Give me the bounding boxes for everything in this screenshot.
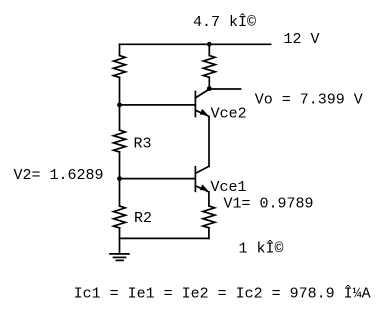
- transistor Q1 emitter lead: [195, 186, 209, 192]
- transistor Q2 collector lead: [195, 89, 209, 98]
- ground bar 3: [116, 259, 123, 261]
- wire bottom rail: [120, 237, 209, 239]
- node dot Q1 base / V2: [117, 176, 122, 181]
- transistor Q2 emitter lead: [195, 110, 209, 116]
- wire Q2 base lead: [120, 104, 196, 106]
- resistor R2: [114, 206, 126, 228]
- svg-text:V2= 1.6289: V2= 1.6289: [14, 167, 104, 184]
- wire Q1 emitter to 1k resistor: [208, 192, 210, 206]
- wire left branch R2 to ground node: [119, 228, 121, 239]
- transistor Q2 base bar: [194, 92, 196, 117]
- node dot Q2 base: [117, 103, 122, 108]
- resistor R3: [114, 130, 126, 152]
- svg-text:Vce2: Vce2: [211, 105, 247, 122]
- resistor 4.7k: [203, 55, 215, 77]
- svg-text:Ic1 = Ie1 = Ie2 = Ic2 = 978.9: Ic1 = Ie1 = Ie2 = Ic2 = 978.9 Î¼A: [74, 284, 371, 302]
- ground bar 1: [110, 253, 129, 255]
- wire left branch R3 to node V2: [119, 152, 121, 206]
- wire 1k resistor bottom lead: [208, 228, 210, 239]
- wire Vo output stub: [209, 88, 240, 90]
- wire left branch R1 to node V2a: [119, 77, 121, 130]
- svg-text:12 V: 12 V: [284, 31, 320, 48]
- transistor Q1 base bar: [194, 167, 196, 192]
- transistor Q1 collector lead: [195, 166, 209, 173]
- node dot top rail / 4.7k: [207, 42, 212, 47]
- svg-text:R3: R3: [134, 135, 152, 152]
- wire left branch top lead: [119, 44, 121, 55]
- wire 4.7k resistor to collector node: [208, 77, 210, 88]
- transistor Q1 emitter arrow: [200, 184, 208, 190]
- node dot Vo collector: [207, 86, 212, 91]
- wire right branch top lead: [208, 44, 210, 55]
- resistor R1 (left top, unlabeled): [114, 56, 126, 78]
- ground stem: [119, 238, 121, 254]
- svg-text:V1= 0.9789: V1= 0.9789: [224, 195, 314, 212]
- transistor Q2 emitter arrow: [200, 109, 208, 115]
- wire Q1 base lead: [120, 178, 196, 180]
- svg-text:R2: R2: [134, 210, 152, 227]
- ground bar 2: [114, 256, 126, 258]
- svg-text:Vce1: Vce1: [211, 179, 247, 196]
- wire top rail 12V: [120, 43, 271, 45]
- resistor 1k: [203, 206, 215, 228]
- svg-text:Vo = 7.399 V: Vo = 7.399 V: [255, 91, 363, 108]
- wire Q2 emitter to Q1 collector: [208, 116, 210, 166]
- svg-text:4.7 kÎ©: 4.7 kÎ©: [193, 13, 256, 31]
- svg-text:1 kÎ©: 1 kÎ©: [239, 240, 284, 258]
